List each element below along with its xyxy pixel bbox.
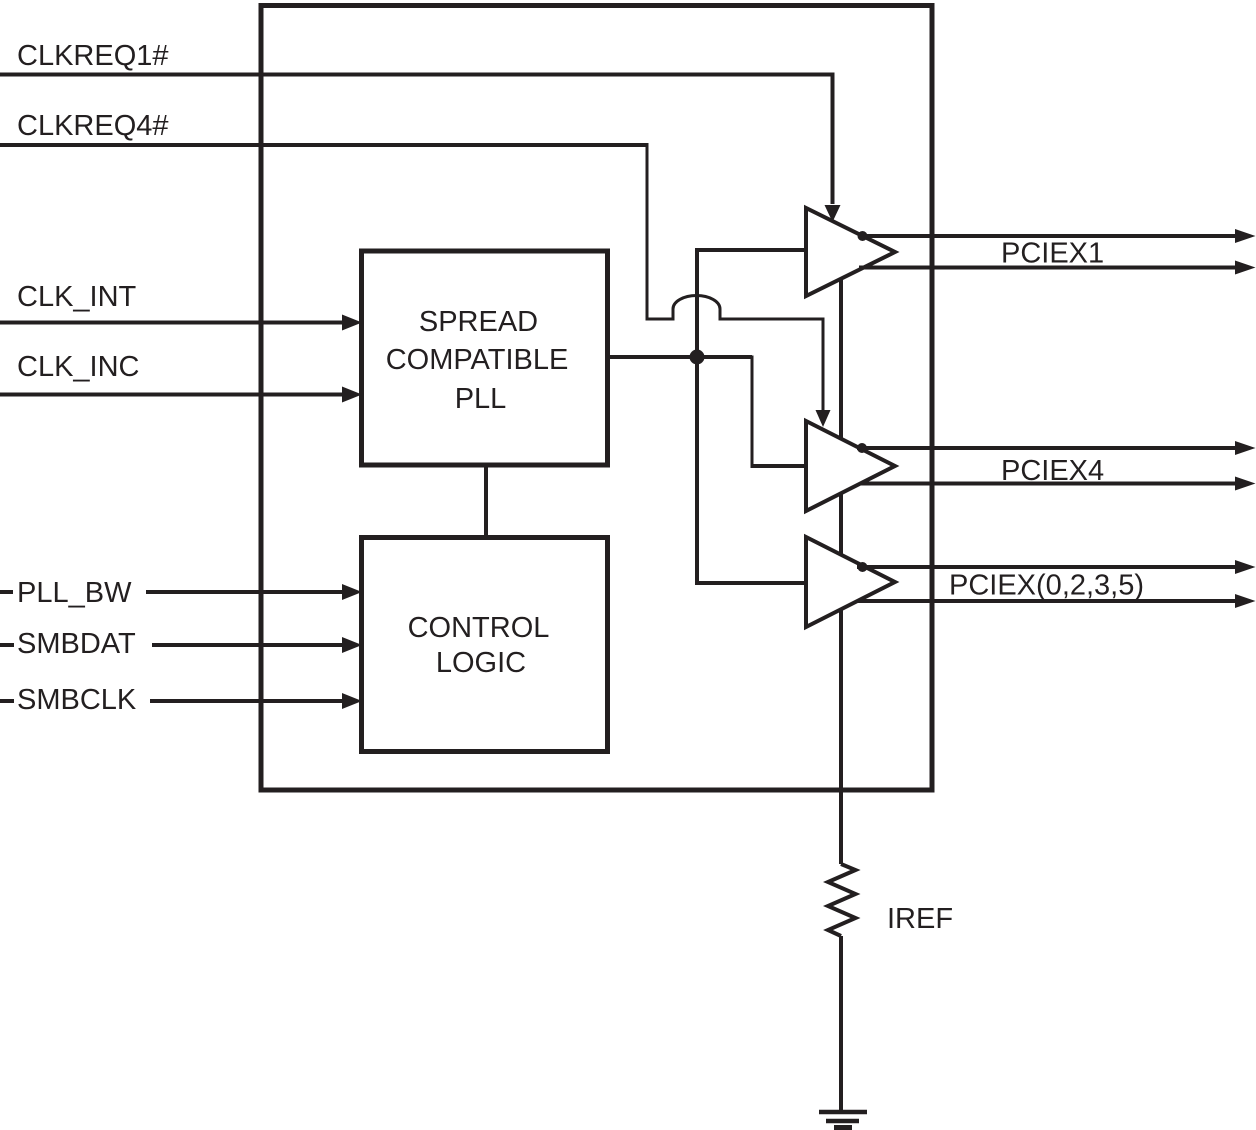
- svg-text:PLL: PLL: [455, 383, 507, 415]
- arrowhead CLK_INC into PLL: [342, 387, 362, 403]
- svg-text:COMPATIBLE: COMPATIBLE: [386, 344, 569, 376]
- chip outline: [261, 6, 932, 791]
- arrowhead SMBCLK into control logic: [342, 693, 362, 709]
- wire PCIEX1 output B: [859, 266, 1237, 270]
- wire SMBDAT: [0, 643, 344, 647]
- svg-text:CLK_INT: CLK_INT: [17, 281, 137, 313]
- wire PLL to control logic: [484, 465, 488, 539]
- wire node to buffer U3 input: [695, 250, 806, 357]
- buffer U5 (PCIEX(0,2,3,5)): [806, 537, 895, 627]
- wire resistor to ground: [839, 936, 843, 1110]
- wire IREF bus from buffer U3 down to resistor: [839, 279, 843, 864]
- wire CLK_INC: [0, 393, 344, 397]
- wire node to buffer U4 input: [751, 356, 754, 467]
- wire PCIEX4 output A: [857, 446, 1237, 450]
- wire PCIEX(0,2,3,5) output B: [857, 599, 1237, 603]
- wire CLK_INT: [0, 321, 344, 325]
- wire PLL_BW: [0, 590, 344, 594]
- svg-text:SPREAD: SPREAD: [419, 306, 538, 338]
- node tap buffer U3: [858, 231, 868, 241]
- wire PCIEX(0,2,3,5) output A: [857, 565, 1237, 569]
- block U2 CONTROL LOGIC: [362, 538, 608, 752]
- block U1 SPREAD COMPATIBLE PLL: [362, 251, 608, 465]
- arrowhead PLL_BW into control logic: [342, 584, 362, 600]
- arrowhead PCIEX4 output A: [1235, 441, 1256, 455]
- wire SMBCLK: [0, 699, 344, 703]
- wire CLKREQ4# routing with hop over node: [647, 144, 823, 410]
- svg-text:PCIEX(0,2,3,5): PCIEX(0,2,3,5): [949, 570, 1144, 602]
- arrowhead PCIEX(0,2,3,5) output B: [1235, 594, 1256, 608]
- buffer U3 (PCIEX1): [806, 208, 895, 296]
- arrowhead PCIEX1 output B: [1235, 261, 1256, 275]
- svg-text:LOGIC: LOGIC: [436, 647, 526, 679]
- arrowhead CLKREQ4# into buffer U4: [816, 410, 831, 427]
- svg-text:CLKREQ4#: CLKREQ4#: [17, 110, 169, 142]
- wire PCIEX1 output A: [858, 234, 1237, 238]
- wire PCIEX4 output B: [861, 482, 1237, 486]
- arrowhead PCIEX1 output A: [1235, 229, 1256, 243]
- arrowhead CLK_INT into PLL: [342, 315, 362, 331]
- svg-text:CLKREQ1#: CLKREQ1#: [17, 40, 169, 72]
- node tap buffer U5: [858, 562, 868, 572]
- arrowhead PCIEX4 output B: [1235, 477, 1256, 491]
- svg-text:PLL_BW: PLL_BW: [17, 577, 132, 609]
- svg-text:CLK_INC: CLK_INC: [17, 351, 140, 383]
- resistor IREF: [828, 864, 856, 936]
- wire PLL output: [606, 355, 752, 359]
- node PLL output junction: [690, 350, 705, 365]
- svg-text:PCIEX4: PCIEX4: [1001, 455, 1104, 487]
- wire node to buffer U5 input: [695, 357, 806, 585]
- arrowhead CLKREQ1# into buffer U3: [825, 205, 841, 222]
- node tap buffer U4: [857, 443, 867, 453]
- svg-text:SMBCLK: SMBCLK: [17, 684, 137, 716]
- arrowhead PCIEX(0,2,3,5) output A: [1235, 560, 1256, 574]
- svg-text:IREF: IREF: [887, 903, 953, 935]
- ground: [819, 1112, 867, 1130]
- svg-text:CONTROL: CONTROL: [408, 612, 550, 644]
- wire CLKREQ4#: [0, 143, 649, 147]
- buffer U4 (PCIEX4): [806, 421, 895, 511]
- svg-text:PCIEX1: PCIEX1: [1001, 238, 1104, 270]
- wire CLKREQ1#: [0, 75, 833, 205]
- svg-text:SMBDAT: SMBDAT: [17, 628, 136, 660]
- arrowhead SMBDAT into control logic: [342, 637, 362, 653]
